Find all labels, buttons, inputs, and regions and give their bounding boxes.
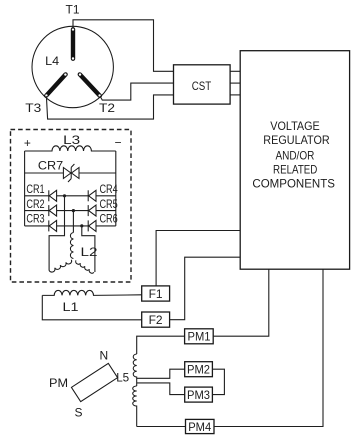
svg-text:S: S: [74, 406, 82, 420]
wire L1 left to F2: [42, 295, 141, 319]
wire F1 to regulator: [156, 231, 240, 286]
svg-text:CR7: CR7: [38, 158, 64, 172]
inductor L3 top line with coil: [25, 146, 116, 151]
svg-text:L1: L1: [63, 300, 79, 314]
exciter armature L2 right coil: [76, 260, 94, 273]
terminal PM1 box: [185, 329, 214, 344]
diode CR2: [49, 205, 57, 216]
svg-text:VOLTAGE: VOLTAGE: [270, 119, 320, 133]
svg-text:PM2: PM2: [187, 363, 210, 377]
magnet PM rectangle: [71, 363, 117, 401]
node phase1 junction: [63, 194, 66, 197]
exciter armature L2 middle coil: [70, 233, 73, 259]
winding bar T2 (bottom-right): [79, 73, 101, 96]
node phase3 junction: [80, 224, 83, 227]
diode CR5: [88, 205, 96, 216]
wire PM1 to L5 top: [137, 336, 185, 354]
bus - (right vertical): [115, 151, 117, 226]
svg-text:CR1: CR1: [26, 182, 45, 196]
wire PM4 to regulator: [214, 269, 323, 426]
svg-text:CR2: CR2: [26, 197, 45, 211]
wire PM1 to regulator: [213, 269, 269, 336]
svg-text:CST: CST: [192, 79, 212, 93]
wire PM2-PM3 link: [212, 369, 224, 394]
exciter field L1 coil: [42, 290, 141, 295]
svg-text:CR6: CR6: [99, 212, 118, 226]
diode CR3: [49, 220, 57, 231]
wire phase3 to L2: [82, 226, 95, 272]
terminal PM4 box: [186, 419, 215, 433]
svg-text:PM1: PM1: [188, 330, 211, 344]
svg-text:F2: F2: [149, 313, 163, 327]
wire T2 to CST: [100, 83, 174, 100]
pm generator winding L5 upper coil: [133, 354, 136, 386]
suppressor CR7 symbol: [63, 164, 79, 182]
svg-text:AND/OR: AND/OR: [275, 148, 314, 162]
svg-text:L2: L2: [81, 245, 98, 259]
svg-text:CR4: CR4: [99, 182, 118, 196]
svg-text:REGULATOR: REGULATOR: [263, 133, 330, 147]
diode row CR3/CR6: [25, 225, 116, 227]
wire L5 bottom to PM4: [137, 426, 186, 428]
svg-text:PM: PM: [49, 376, 68, 390]
winding bar T1 (top): [72, 28, 74, 59]
svg-text:N: N: [99, 349, 108, 363]
voltage regulator box: [240, 51, 349, 270]
svg-text:−: −: [114, 135, 121, 149]
wire phase1 to L2: [49, 196, 64, 271]
node phase2 junction: [72, 209, 75, 212]
svg-text:PM3: PM3: [187, 388, 210, 402]
svg-text:COMPONENTS: COMPONENTS: [252, 176, 335, 190]
wire CST-REG stub 2: [230, 82, 240, 84]
wire F2 to regulator: [170, 257, 241, 320]
svg-text:RELATED: RELATED: [273, 162, 318, 176]
winding bar T3 (bottom-left): [45, 73, 66, 96]
svg-text:F1: F1: [149, 287, 163, 301]
terminal F1 box: [142, 286, 170, 301]
pm generator winding L5 lower coil: [133, 386, 137, 427]
svg-text:CR3: CR3: [26, 212, 45, 226]
svg-text:L3: L3: [63, 133, 80, 147]
diode row CR1/CR4: [25, 195, 116, 197]
stator L4 circle: [32, 26, 113, 107]
wire L5 tap B: [137, 383, 185, 395]
svg-text:L5: L5: [116, 371, 129, 385]
svg-text:PM4: PM4: [188, 420, 211, 434]
wire CST-REG stub 1: [230, 70, 240, 72]
svg-text:L4: L4: [45, 54, 59, 68]
svg-text:CR5: CR5: [99, 197, 118, 211]
svg-text:T1: T1: [66, 3, 80, 17]
terminal F2 box: [142, 312, 170, 327]
diode CR1: [49, 190, 57, 201]
diode CR6: [88, 220, 96, 231]
wire T1 to CST: [73, 20, 174, 72]
transformer CST box: [174, 65, 231, 104]
svg-text:+: +: [24, 136, 31, 150]
wire phase2 to L2: [72, 211, 74, 233]
terminal PM2 box: [185, 362, 213, 377]
wire L5 tap A: [137, 369, 185, 378]
diode row CR2/CR5: [25, 210, 116, 212]
bus + (left vertical): [24, 151, 26, 226]
terminal PM3 box: [185, 387, 213, 402]
diode CR4: [88, 190, 96, 201]
exciter armature L2 left coil: [49, 260, 72, 272]
svg-text:T3: T3: [25, 101, 41, 115]
suppressor CR7 row: [25, 172, 116, 174]
wire CST-REG stub 3: [230, 94, 240, 96]
svg-text:T2: T2: [99, 101, 115, 115]
rotating rectifier dashed enclosure: [11, 130, 132, 283]
wire T3 to CST: [46, 95, 173, 119]
